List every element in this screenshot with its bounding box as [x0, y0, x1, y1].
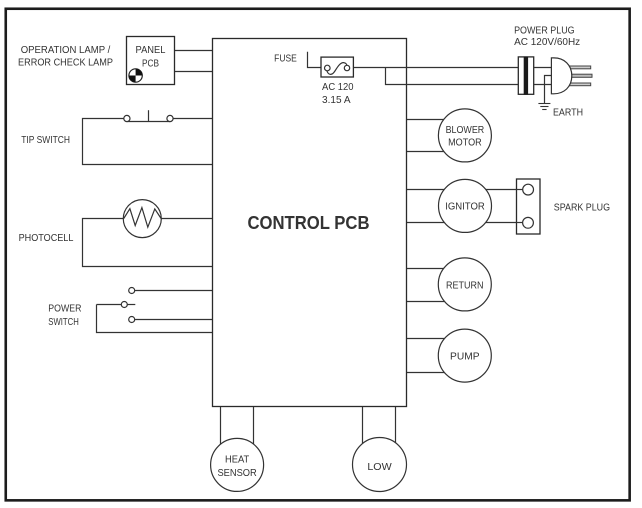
- svg-text:CONTROL PCB: CONTROL PCB: [248, 212, 370, 233]
- svg-text:PANEL: PANEL: [136, 44, 166, 56]
- svg-text:PHOTOCELL: PHOTOCELL: [19, 232, 74, 244]
- svg-text:HEAT: HEAT: [225, 453, 250, 465]
- svg-text:AC 120: AC 120: [322, 81, 354, 93]
- svg-text:IGNITOR: IGNITOR: [445, 201, 485, 213]
- svg-text:BLOWER: BLOWER: [446, 124, 485, 136]
- svg-text:PUMP: PUMP: [450, 351, 480, 363]
- svg-text:OPERATION LAMP /: OPERATION LAMP /: [21, 44, 111, 56]
- svg-text:MOTOR: MOTOR: [448, 137, 482, 149]
- svg-text:SWITCH: SWITCH: [48, 316, 79, 328]
- svg-text:SENSOR: SENSOR: [217, 467, 257, 479]
- svg-text:SPARK PLUG: SPARK PLUG: [554, 202, 610, 214]
- svg-text:AC 120V/60Hz: AC 120V/60Hz: [514, 36, 580, 48]
- svg-text:POWER: POWER: [48, 303, 81, 315]
- svg-text:3.15 A: 3.15 A: [322, 94, 351, 106]
- svg-text:TIP SWITCH: TIP SWITCH: [21, 134, 70, 146]
- svg-text:ERROR CHECK LAMP: ERROR CHECK LAMP: [18, 57, 113, 69]
- svg-text:EARTH: EARTH: [553, 107, 583, 119]
- svg-text:FUSE: FUSE: [274, 52, 297, 64]
- svg-text:PCB: PCB: [142, 57, 159, 69]
- svg-text:RETURN: RETURN: [446, 279, 484, 291]
- svg-text:POWER PLUG: POWER PLUG: [514, 24, 575, 36]
- svg-text:LOW: LOW: [367, 461, 391, 473]
